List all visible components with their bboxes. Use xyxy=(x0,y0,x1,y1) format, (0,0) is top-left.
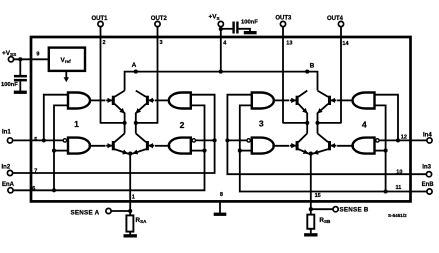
terminal In3 label xyxy=(422,165,431,171)
pin number 5 xyxy=(34,137,37,143)
terminal In1 pin circle xyxy=(7,138,12,143)
wire EnB pin 11 across to gate 3 xyxy=(240,105,427,191)
capacitor 100nF (logic supply) label xyxy=(1,82,18,88)
junction dot sense A xyxy=(128,209,132,213)
junction dot EnB gate4 lower branch xyxy=(384,149,388,153)
svg-text:100nF: 100nF xyxy=(241,19,258,25)
ground (supply capacitor) xyxy=(244,31,257,34)
wire gate 1 upper output xyxy=(90,99,106,101)
terminal OUT2 pin circle xyxy=(155,21,160,26)
terminal In1 label xyxy=(2,129,11,135)
transistor Q5 upper-left bridge B xyxy=(290,91,307,123)
pin number 15 xyxy=(315,193,321,199)
pin number 12 xyxy=(401,135,407,141)
svg-text:15: 15 xyxy=(315,193,321,199)
wire In3 pin 10 across to gate 3 xyxy=(227,95,426,175)
terminal OUT4 pin circle xyxy=(338,21,343,26)
svg-text:B: B xyxy=(310,63,315,70)
transistor Q7 lower-left bridge B xyxy=(290,133,311,153)
svg-text:11: 11 xyxy=(396,185,402,191)
terminal In3 pin circle xyxy=(426,172,431,177)
wire gate 3 upper output xyxy=(274,99,290,101)
terminal OUT2 label xyxy=(151,16,168,22)
terminal OUT3 label xyxy=(275,16,292,22)
block label 4 xyxy=(362,120,367,130)
terminal SENSE A pin circle xyxy=(106,208,111,213)
junction dot bridge B bottom node xyxy=(309,152,313,156)
AND gate 4 lower (sink driver B2) xyxy=(353,138,375,154)
junction dot In1 branch xyxy=(42,138,46,142)
wire OUT1 pin 2 vertical xyxy=(100,27,102,124)
pin number 8 xyxy=(220,192,223,198)
junction dot +Vss cap branch xyxy=(18,57,22,61)
block label 2 xyxy=(180,120,185,130)
terminal EnA label xyxy=(2,182,15,188)
svg-text:In1: In1 xyxy=(2,129,11,135)
terminal OUT4 label xyxy=(327,16,344,22)
resistor RSB label xyxy=(319,217,331,224)
wire gate 1 lower output xyxy=(89,145,106,147)
node B label xyxy=(310,63,315,70)
ground (logic capacitor) xyxy=(14,81,27,94)
pin number 9 xyxy=(36,51,39,57)
terminal EnB label xyxy=(422,182,435,188)
wire SENSE A to sense line xyxy=(111,210,130,212)
wire gate 2 lower output xyxy=(155,145,170,147)
wire EnB to gate 3 lower input xyxy=(240,150,252,152)
wire EnA pin 6 across to gate 2 xyxy=(13,105,204,190)
wire lower-right collector B xyxy=(317,123,319,133)
pin number 13 xyxy=(286,41,292,47)
wire EnB to gate 4 lower input xyxy=(375,150,386,152)
junction dot EnA gate2 lower branch xyxy=(202,149,206,153)
capacitor 100nF (logic supply) plates xyxy=(14,75,27,82)
svg-text:4: 4 xyxy=(362,120,367,130)
pin number 1 xyxy=(132,194,135,200)
wire gate 3 lower output xyxy=(272,145,289,147)
junction dot OUT1 node xyxy=(123,121,127,125)
junction dot In2 branch xyxy=(213,138,217,142)
svg-text:OUT2: OUT2 xyxy=(151,16,168,22)
pin number 2 xyxy=(103,40,106,46)
AND gate 3 upper (source driver B1) xyxy=(252,93,274,109)
ground (RSA) xyxy=(124,232,137,238)
junction dot bridge A bottom node xyxy=(128,152,132,156)
svg-text:9: 9 xyxy=(36,51,39,57)
junction dot In4 branch xyxy=(396,138,400,142)
wire gate 4 lower output xyxy=(337,145,354,147)
pin number 14 xyxy=(342,41,349,47)
wire +Vs to capacitor xyxy=(221,28,233,30)
terminal +Vss label xyxy=(2,50,16,57)
wire OUT1 horizontal xyxy=(101,122,125,124)
wire +Vss cap lead xyxy=(19,59,21,75)
wire OUT4 pin 14 vertical xyxy=(340,27,342,124)
svg-text:10: 10 xyxy=(396,169,402,175)
wire In4 up to gate 4 upper input xyxy=(375,95,399,141)
figure reference S-5451/2 xyxy=(388,213,407,218)
wire OUT3 horizontal xyxy=(283,122,307,124)
junction dot +Vs rail tee xyxy=(219,70,223,74)
terminal OUT1 pin circle xyxy=(98,21,103,26)
block label 3 xyxy=(259,119,264,129)
wire sense A vertical pin 1 xyxy=(129,154,131,216)
junction dot EnB gate4 branch xyxy=(384,189,388,193)
svg-text:SENSE B: SENSE B xyxy=(340,207,369,214)
junction dot In3 branch xyxy=(225,138,229,142)
wire In1 up to gate 1 upper input xyxy=(44,95,68,141)
resistor RSA label xyxy=(136,217,148,224)
resistor RSB xyxy=(307,215,314,229)
svg-text:In2: In2 xyxy=(2,164,11,170)
terminal +Vss pin circle xyxy=(8,57,13,62)
block label 1 xyxy=(74,119,79,129)
terminal In2 label xyxy=(2,164,11,170)
wire In1 pin 5 to gate 1 xyxy=(13,139,64,141)
terminal OUT3 pin circle xyxy=(280,21,285,26)
svg-text:8: 8 xyxy=(220,192,223,198)
junction dot OUT2 node xyxy=(134,121,138,125)
transistor Q8 lower-right bridge B xyxy=(311,133,337,153)
wire In2 pin 7 across to gate 2 xyxy=(13,95,215,173)
terminal EnB pin circle xyxy=(427,189,432,194)
transistor Q3 lower-left bridge A xyxy=(106,133,130,153)
svg-text:12: 12 xyxy=(401,135,407,141)
transistor Q4 lower-right bridge A xyxy=(130,133,154,153)
Vref output arrow xyxy=(64,71,69,82)
svg-text:100nF: 100nF xyxy=(1,82,18,88)
terminal +Vs pin circle xyxy=(218,21,223,26)
ground (pin 8 GND) xyxy=(214,201,227,216)
pin number 11 xyxy=(396,185,402,191)
AND gate 4 upper (source driver B2) xyxy=(353,93,375,109)
svg-text:2: 2 xyxy=(180,120,185,130)
junction dot node B xyxy=(305,70,309,74)
transistor Q6 upper-right bridge B xyxy=(318,91,337,123)
junction dot EnA gate1 branch xyxy=(52,188,56,192)
terminal In4 label xyxy=(423,132,432,138)
svg-text:A: A xyxy=(132,62,137,69)
wire EnA to gate 2 lower input xyxy=(191,150,205,152)
capacitor 100nF (supply) plates xyxy=(232,22,238,34)
svg-text:S-5451/2: S-5451/2 xyxy=(388,213,407,218)
wire OUT4 horizontal xyxy=(318,122,342,124)
AND gate 2 upper (source driver A2) xyxy=(169,93,191,109)
IC outline box (L298 block boundary) xyxy=(31,37,411,201)
svg-text:14: 14 xyxy=(342,41,349,47)
wire In2 to gate 2 bubble xyxy=(195,139,214,141)
pin number 7 xyxy=(34,168,37,174)
inverter bubble gate 3 lower xyxy=(247,139,250,142)
svg-text:1: 1 xyxy=(132,194,135,200)
wire In3 to gate 3 bubble xyxy=(227,139,247,141)
wire gate 2 upper output xyxy=(155,99,169,101)
wire OUT2 pin 3 vertical xyxy=(157,27,159,124)
wire gate 4 upper output xyxy=(337,99,352,101)
svg-text:3: 3 xyxy=(160,40,163,46)
capacitor 100nF (supply) label xyxy=(241,19,258,25)
wire EnB up to gate 4 inputs xyxy=(375,105,386,191)
inverter bubble gate 2 lower xyxy=(192,139,195,142)
terminal In4 pin circle xyxy=(427,138,432,143)
AND gate 2 lower (sink driver A2) xyxy=(169,138,191,154)
wire OUT3 pin 13 vertical xyxy=(282,27,284,124)
svg-text:5: 5 xyxy=(34,137,37,143)
junction dot OUT3 node xyxy=(305,121,309,125)
ground (RSB) xyxy=(304,229,317,237)
node A label xyxy=(132,62,137,69)
Vref block box xyxy=(49,48,85,71)
pin number 10 xyxy=(396,169,402,175)
junction dot EnA gate1 lower branch xyxy=(52,149,56,153)
svg-text:1: 1 xyxy=(74,119,79,129)
junction dot OUT4 node xyxy=(315,121,319,125)
svg-text:7: 7 xyxy=(34,168,37,174)
junction dot +Vs branch xyxy=(219,27,223,31)
pin number 3 xyxy=(160,40,163,46)
wire lower-left collector B xyxy=(306,123,308,133)
junction dot EnB gate3 lower branch xyxy=(238,149,242,153)
terminal SENSE A label xyxy=(71,210,100,217)
svg-text:2: 2 xyxy=(103,40,106,46)
transistor Q2 upper-right bridge A xyxy=(136,91,155,123)
wire sense B to SENSE B terminal xyxy=(311,208,333,210)
svg-text:3: 3 xyxy=(259,119,264,129)
svg-text:In3: In3 xyxy=(422,165,431,171)
AND gate 3 lower (sink driver B1) xyxy=(252,138,274,154)
AND gate 1 upper (source driver A1) xyxy=(68,93,90,109)
wire EnA up to gate 1 inputs xyxy=(54,105,68,190)
wire sense B vertical pin 15 xyxy=(310,154,312,215)
wire EnA to gate 1 lower input xyxy=(54,150,68,152)
terminal OUT1 label xyxy=(91,16,108,22)
wire capacitor to ground xyxy=(239,29,250,31)
resistor RSA xyxy=(126,215,133,231)
Vref block label xyxy=(61,57,72,64)
terminal +Vs label xyxy=(209,13,220,20)
wire OUT2 horizontal xyxy=(136,122,158,124)
wire +Vs pin 4 vertical to supply rail xyxy=(220,27,222,72)
wire +Vs supply rail xyxy=(125,72,318,91)
svg-text:EnB: EnB xyxy=(422,182,435,188)
junction dot sense B xyxy=(309,207,313,211)
junction dot node A xyxy=(134,70,138,74)
svg-text:13: 13 xyxy=(286,41,292,47)
inverter bubble gate 4 lower xyxy=(376,139,379,142)
terminal SENSE B pin circle xyxy=(333,207,338,212)
wire In4 pin 12 to gate 4 xyxy=(379,139,427,141)
pin number 6 xyxy=(32,186,35,192)
svg-text:SENSE A: SENSE A xyxy=(71,210,100,217)
wire lower-right collector A xyxy=(135,123,137,133)
svg-text:6: 6 xyxy=(32,186,35,192)
pin number 4 xyxy=(223,41,227,47)
transistor Q1 upper-left bridge A xyxy=(106,91,124,123)
terminal SENSE B label xyxy=(340,207,369,214)
svg-text:EnA: EnA xyxy=(2,182,15,188)
wire +Vss pin 9 to Vref xyxy=(14,58,49,60)
AND gate 1 lower (sink driver A1) xyxy=(68,138,90,154)
wire lower-left collector A xyxy=(124,123,126,133)
inverter bubble gate 1 lower xyxy=(63,139,66,142)
terminal EnA pin circle xyxy=(8,188,13,193)
terminal In2 pin circle xyxy=(7,170,12,175)
